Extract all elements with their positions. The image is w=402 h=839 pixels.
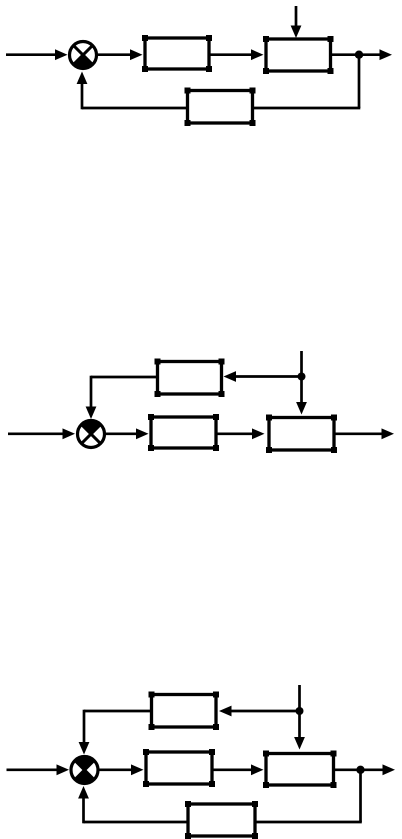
wire: output of G6 with arrow <box>334 764 396 775</box>
summing junction S3 (top and bottom quadrants filled) <box>71 757 98 784</box>
wire: input arrow into S3 <box>7 764 70 775</box>
wire: input arrow into S2 <box>8 428 75 439</box>
wire: S3 to block G5 (arrow) <box>100 764 144 775</box>
wire: feedback horizontal right segment <box>251 107 360 110</box>
wire: down arrow into summing junction S3 <box>79 710 90 755</box>
wire: output of G2 with arrow <box>331 49 393 60</box>
wire: G1 to block G2 (arrow) <box>209 49 264 60</box>
wire: node to feedforward block Gf (arrow left) <box>224 371 302 382</box>
block G1 <box>142 35 212 72</box>
wire: down arrow into summing junction S2 <box>86 376 97 419</box>
wire: Gf2 left horizontal segment <box>84 710 153 713</box>
wire: G3 to block G4 (arrow) <box>216 428 265 439</box>
wire: S2 to block G3 (arrow) <box>106 428 149 439</box>
block G4 <box>266 415 337 454</box>
node: takeoff on disturbance line <box>298 373 306 381</box>
summing junction S2 (top quadrant filled) <box>78 421 105 448</box>
wire: G5 to block G6 (arrow) <box>212 764 264 775</box>
wire: feedback up arrow into S3 <box>78 786 89 823</box>
block G5 <box>143 749 215 787</box>
wire: Gf left horizontal segment <box>91 376 159 379</box>
block H2 (feedback) <box>185 801 258 839</box>
disturbance arrow into top of G2 <box>291 6 302 38</box>
wire: feedback horizontal left segment <box>82 107 189 110</box>
wire: feedback up arrow into S1 <box>77 72 88 110</box>
block G6 <box>263 751 337 789</box>
node: output takeoff point <box>355 51 363 59</box>
disturbance line: vertical arrow into top of block G4 <box>296 351 307 415</box>
block H1 (feedback) <box>185 88 256 127</box>
wire: feedback horizontal left segment (diagram 3) <box>84 821 190 824</box>
block G3 <box>148 414 219 451</box>
wire: input arrow into summing junction S1 <box>6 49 68 60</box>
summing junction S1 (bottom quadrant filled) <box>70 42 97 69</box>
block G2 <box>263 36 334 74</box>
wire: takeoff down segment <box>358 55 361 108</box>
wire: output of G4 with arrow <box>334 428 394 439</box>
disturbance line: vertical arrow into top of block G6 <box>294 685 305 750</box>
node: takeoff on disturbance line (diagram 3) <box>296 707 304 715</box>
block Gf (feedforward) <box>155 359 225 398</box>
wire: feedback horizontal right segment (diagram 3) <box>254 821 362 824</box>
block Gf2 (feedforward) <box>149 692 220 731</box>
wire: takeoff down segment (diagram 3) <box>359 770 362 822</box>
wire: S1 to block G1 (arrow) <box>98 49 143 60</box>
node: output takeoff point (diagram 3) <box>356 766 364 774</box>
wire: node to feedforward block Gf2 (arrow left) <box>219 706 300 717</box>
